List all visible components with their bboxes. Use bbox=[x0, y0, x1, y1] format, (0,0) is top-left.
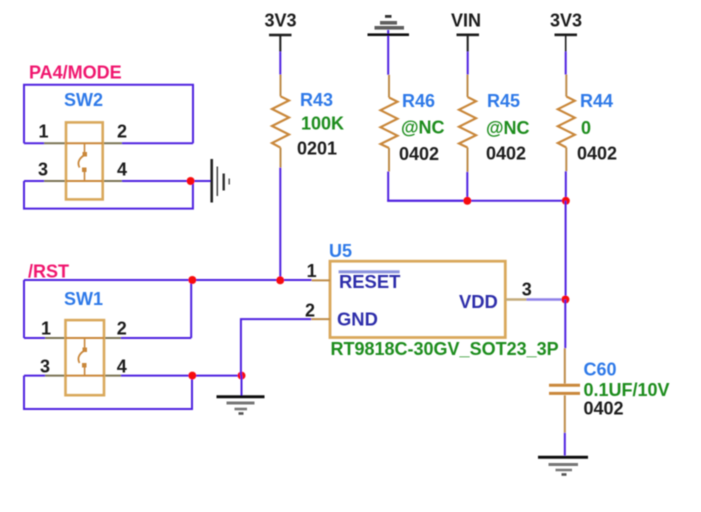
SW2 pin1 bbox=[44, 142, 66, 144]
wire C60 to ground bbox=[564, 433, 566, 456]
junction gnd tee bbox=[238, 372, 246, 380]
svg-text:0.1UF/10V: 0.1UF/10V bbox=[584, 380, 670, 400]
svg-text:3V3: 3V3 bbox=[265, 11, 297, 31]
svg-text:@NC: @NC bbox=[401, 118, 445, 138]
wire R46 bottom to bus bbox=[388, 172, 467, 201]
junction SW2 pin4 / ground bbox=[187, 177, 195, 185]
svg-text:SW2: SW2 bbox=[64, 90, 103, 110]
svg-text:R46: R46 bbox=[402, 91, 435, 111]
SW1 pin rows inside box bbox=[66, 337, 105, 339]
wire gnd tee down to ground bbox=[241, 376, 243, 396]
ground symbol (right-facing, at SW2 pin4) bbox=[212, 159, 230, 203]
wire R44 node down to VDD node bbox=[565, 201, 567, 300]
svg-text:RESET: RESET bbox=[339, 271, 401, 292]
svg-text:VIN: VIN bbox=[451, 11, 481, 31]
switch SW1 bbox=[24, 280, 242, 409]
svg-text:0: 0 bbox=[581, 118, 591, 138]
svg-text:SW1: SW1 bbox=[64, 289, 103, 309]
SW1 bottom loop wire bbox=[24, 376, 192, 409]
wire U5 pin2 net: left and down to gnd tee bbox=[241, 319, 311, 376]
SW1 pin1 wire bbox=[24, 337, 45, 339]
svg-text:3V3: 3V3 bbox=[550, 11, 582, 31]
svg-text:0201: 0201 bbox=[297, 139, 337, 159]
svg-text:0402: 0402 bbox=[584, 399, 624, 419]
wire R43 bottom to /RST node bbox=[279, 168, 281, 281]
SW1 pin3 wire bbox=[24, 375, 45, 377]
SW2 contact stubs and lever bbox=[84, 143, 86, 152]
svg-text:3: 3 bbox=[522, 280, 532, 300]
SW1 pin3 bbox=[45, 375, 66, 377]
SW2 pin3 wire bbox=[24, 180, 44, 182]
power symbol VIN (above R45) bbox=[451, 11, 481, 52]
wire /RST net (top of SW1 to U5 pin1) bbox=[24, 279, 312, 281]
SW1 pin2 bbox=[104, 337, 121, 339]
SW2 pin row inside box bbox=[66, 142, 103, 144]
SW2 pin1 wire bbox=[24, 142, 44, 144]
ground symbol (earth, below C60) bbox=[538, 457, 588, 474]
wire VDD node down to C60 bbox=[564, 300, 566, 349]
junction R45/bus bbox=[463, 197, 471, 205]
SW1 contact stubs and lever bbox=[84, 338, 86, 348]
SW2 body box bbox=[66, 122, 103, 199]
SW2 top loop wire bbox=[24, 85, 193, 144]
capacitor C60 bbox=[549, 348, 580, 433]
SW2 pin2 wire bbox=[122, 142, 193, 144]
svg-text:C60: C60 bbox=[584, 360, 617, 380]
ground symbol (earth, below SW1/U5 GND) bbox=[217, 397, 265, 414]
wire R44 bottom to bus node bbox=[565, 171, 567, 201]
svg-text:RT9818C-30GV_SOT23_3P: RT9818C-30GV_SOT23_3P bbox=[331, 339, 559, 359]
SW2 pin2 bbox=[103, 142, 122, 144]
wire 3V3 to R43 top bbox=[279, 52, 281, 75]
resistor R46 bbox=[381, 75, 398, 172]
ground symbol (up-facing, above R46) bbox=[368, 15, 410, 36]
SW2 bottom loop wire bbox=[24, 181, 193, 209]
SW2 pin3 bbox=[44, 180, 66, 182]
junction /RST wire / SW1 loop bbox=[188, 276, 196, 284]
resistor R44 bbox=[558, 75, 575, 172]
SW1 body box bbox=[66, 320, 105, 395]
svg-text:0402: 0402 bbox=[486, 144, 526, 164]
power symbol 3V3 (right, above R44) bbox=[550, 11, 582, 52]
svg-text:U5: U5 bbox=[329, 241, 352, 261]
junction R44/bus bbox=[562, 197, 570, 205]
wire bus R46-R45-R44 bbox=[387, 200, 566, 202]
U5 pin 1 bbox=[312, 279, 330, 281]
SW1 pin2 wire bbox=[121, 337, 191, 339]
junction SW1 pin4 row / bottom loop bbox=[188, 372, 196, 380]
svg-text:2: 2 bbox=[117, 121, 127, 141]
svg-text:VDD: VDD bbox=[459, 291, 498, 312]
op-amp U5 (reset IC) body bbox=[330, 261, 505, 337]
svg-text:R44: R44 bbox=[580, 91, 613, 111]
svg-text:1: 1 bbox=[307, 261, 317, 281]
wire R45 bottom to bus bbox=[466, 172, 468, 201]
power symbol 3V3 (left, above R43) bbox=[265, 11, 297, 52]
junction pin3 / C60 net bbox=[561, 296, 569, 304]
SW1 pin4 wire to gnd tee bbox=[121, 375, 242, 377]
svg-text:/RST: /RST bbox=[28, 262, 69, 282]
resistor R43 bbox=[272, 75, 289, 168]
U5 pin 3 bbox=[505, 298, 526, 300]
svg-text:4: 4 bbox=[117, 356, 127, 376]
svg-text:2: 2 bbox=[117, 319, 127, 339]
svg-text:2: 2 bbox=[305, 300, 315, 320]
wire U5 pin3 to VDD node bbox=[527, 298, 566, 301]
svg-text:1: 1 bbox=[41, 319, 51, 339]
svg-text:R43: R43 bbox=[300, 90, 333, 110]
switch SW2 bbox=[24, 85, 211, 209]
svg-text:GND: GND bbox=[337, 308, 378, 329]
svg-text:R45: R45 bbox=[487, 91, 520, 111]
svg-text:1: 1 bbox=[39, 121, 49, 141]
wire gnd to R46 top bbox=[387, 30, 389, 75]
pin name RESET with overline bbox=[339, 270, 401, 292]
wire VIN to R45 top bbox=[467, 52, 469, 75]
resistor R45 bbox=[459, 75, 476, 172]
svg-text:0402: 0402 bbox=[577, 144, 617, 164]
SW2 pin4 wire to ground bbox=[122, 180, 211, 182]
svg-text:3: 3 bbox=[40, 356, 50, 376]
U5 pin 2 bbox=[311, 318, 330, 320]
svg-text:4: 4 bbox=[117, 159, 127, 179]
svg-text:PA4/MODE: PA4/MODE bbox=[29, 63, 122, 83]
SW1 pin4 bbox=[104, 375, 121, 377]
svg-text:0402: 0402 bbox=[399, 144, 439, 164]
svg-text:3: 3 bbox=[38, 159, 48, 179]
svg-text:@NC: @NC bbox=[486, 118, 530, 138]
SW1 pin1 bbox=[45, 337, 66, 339]
svg-text:100K: 100K bbox=[301, 114, 344, 134]
SW1 top loop wire bbox=[23, 280, 25, 338]
wire 3V3 to R44 top bbox=[565, 52, 567, 75]
junction R43 / /RST / U5 pin1 bbox=[276, 276, 284, 284]
SW2 pin4 bbox=[103, 180, 122, 182]
